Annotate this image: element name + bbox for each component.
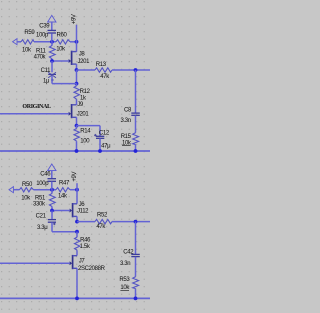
wire <box>77 221 95 223</box>
svg-text:J112: J112 <box>77 209 89 215</box>
junction node B2 <box>75 188 79 192</box>
capacitor C42 (3.3n) <box>120 222 140 277</box>
svg-text:C46: C46 <box>40 172 51 178</box>
wire <box>77 69 96 71</box>
svg-text:C42: C42 <box>123 249 134 255</box>
wire <box>70 189 77 191</box>
capacitor C8 (3.3n) <box>121 70 140 133</box>
svg-text:C12: C12 <box>99 130 110 136</box>
wire <box>70 41 77 43</box>
junction <box>134 220 138 224</box>
junction (J9 source node) <box>75 124 79 128</box>
svg-text:R59: R59 <box>24 30 35 36</box>
svg-text:330k: 330k <box>33 202 46 208</box>
resistor R12 <box>74 84 91 105</box>
resistor R50 <box>20 182 34 201</box>
svg-text:14k: 14k <box>58 193 68 199</box>
resistor R53 <box>119 277 138 299</box>
junction node A <box>50 40 54 44</box>
svg-text:R13: R13 <box>96 62 107 68</box>
junction (J6 source node) <box>75 220 79 224</box>
resistor R59 <box>21 30 35 53</box>
svg-text:10k: 10k <box>120 285 130 291</box>
junction node B <box>75 40 79 44</box>
junction <box>134 149 138 153</box>
wire <box>52 231 77 233</box>
resistor R15 <box>121 133 139 151</box>
svg-text:3.3n: 3.3n <box>120 261 130 267</box>
svg-text:C11: C11 <box>41 68 52 74</box>
capacitor C46 <box>36 172 56 190</box>
svg-text:R52: R52 <box>97 213 108 219</box>
svg-text:470k: 470k <box>34 55 47 61</box>
capacitor C21 (3.3u) <box>36 211 56 232</box>
wire (gate J9 from left edge) <box>0 113 69 115</box>
power port arrow (top) <box>48 15 56 30</box>
wire <box>52 83 77 85</box>
junction <box>134 68 138 72</box>
svg-text:+9V: +9V <box>72 171 78 181</box>
svg-text:3.3n: 3.3n <box>121 118 131 124</box>
transistor J9 (J201) <box>69 102 90 125</box>
wire (ground rail stage 2) <box>0 297 150 299</box>
junction node C2 <box>50 209 54 213</box>
svg-text:J201: J201 <box>78 59 91 65</box>
svg-text:C21: C21 <box>36 214 47 220</box>
resistor R14 <box>74 126 91 151</box>
wire <box>34 189 57 191</box>
svg-text:47k: 47k <box>96 224 106 230</box>
svg-text:R11: R11 <box>36 48 47 54</box>
svg-text:100p: 100p <box>36 181 49 187</box>
junction <box>75 297 79 301</box>
wire <box>77 125 101 127</box>
resistor R51 <box>33 190 55 211</box>
svg-text:3.3μ: 3.3μ <box>37 225 48 231</box>
svg-text:ORIGINAL: ORIGINAL <box>22 104 51 110</box>
svg-text:47k: 47k <box>100 74 110 80</box>
resistor R60 <box>56 32 70 52</box>
svg-text:R50: R50 <box>22 182 33 188</box>
svg-text:R15: R15 <box>121 134 132 140</box>
wire (gate J7 from left edge) <box>0 262 70 264</box>
svg-text:2SC2088R: 2SC2088R <box>78 266 106 272</box>
wire (ground rail stage 1) <box>0 150 150 152</box>
svg-text:10k: 10k <box>56 46 66 52</box>
junction <box>134 297 138 301</box>
resistor R11 <box>34 42 56 61</box>
svg-text:+9V: +9V <box>71 14 77 24</box>
svg-text:100p: 100p <box>36 33 49 39</box>
wire <box>76 25 78 52</box>
svg-text:10k: 10k <box>21 195 31 201</box>
junction <box>98 149 102 153</box>
svg-text:C39: C39 <box>39 24 50 30</box>
junction node C <box>50 59 54 63</box>
transistor J7 (2SC2088R) <box>70 255 106 299</box>
svg-text:1μ: 1μ <box>43 79 50 85</box>
svg-text:C8: C8 <box>124 108 132 114</box>
capacitor C39 <box>36 24 56 42</box>
svg-text:1.5k: 1.5k <box>80 244 91 250</box>
svg-text:J201: J201 <box>77 112 90 118</box>
svg-text:R60: R60 <box>57 32 68 38</box>
wire (gate J8) <box>52 60 69 62</box>
port IN1 (left arrow) <box>13 39 21 45</box>
resistor R46 <box>75 232 92 256</box>
wire <box>112 69 150 71</box>
svg-text:R47: R47 <box>59 181 70 187</box>
resistor R13 <box>95 62 112 80</box>
wire <box>76 183 78 204</box>
junction <box>75 82 79 86</box>
wire (gate J6) <box>52 210 70 212</box>
transistor J8 (J201) <box>69 51 91 70</box>
capacitor C11 (1u) <box>41 61 56 85</box>
junction node A2 <box>50 188 54 192</box>
resistor R52 <box>95 213 112 231</box>
junction (J8 source node) <box>75 68 79 72</box>
svg-text:10k: 10k <box>122 140 132 146</box>
resistor R47 <box>56 181 70 200</box>
svg-text:R12: R12 <box>80 89 91 95</box>
svg-text:R46: R46 <box>80 237 91 243</box>
svg-text:R53: R53 <box>119 277 130 283</box>
capacitor C12 (47u) <box>94 126 111 151</box>
wire <box>76 70 78 84</box>
junction <box>75 149 79 153</box>
wire <box>112 221 150 223</box>
transistor J6 (J112) <box>70 202 90 222</box>
svg-text:R14: R14 <box>80 129 91 135</box>
port IN2 (left arrow) <box>9 187 20 193</box>
power port arrow (stage2) <box>48 164 56 178</box>
svg-text:47μ: 47μ <box>101 143 111 149</box>
wire <box>34 41 56 43</box>
svg-text:10k: 10k <box>22 47 32 53</box>
svg-text:100: 100 <box>80 139 90 145</box>
junction <box>75 230 79 234</box>
